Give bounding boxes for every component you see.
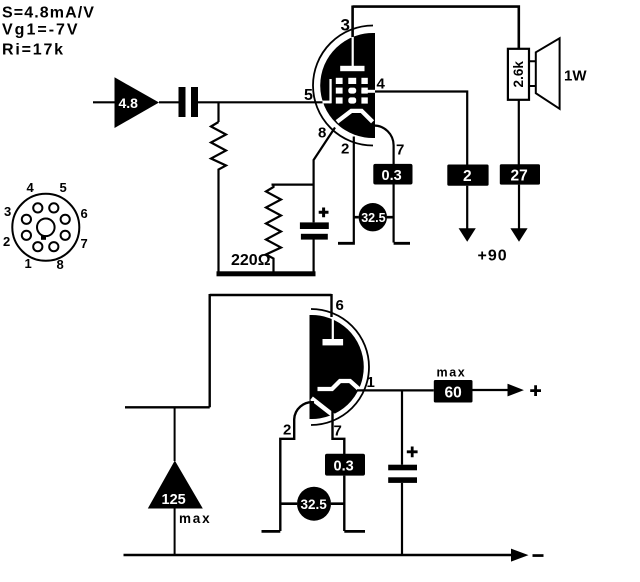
svg-text:220Ω: 220Ω [231, 252, 271, 269]
svg-text:+90: +90 [478, 248, 508, 265]
screen arrow wire [466, 186, 468, 230]
heater circle 32.5 bottom [280, 487, 344, 521]
tube V2 envelope [311, 309, 369, 425]
anode box 27 [500, 164, 540, 184]
svg-text:32.5: 32.5 [361, 211, 385, 225]
resistor grid leak [211, 122, 226, 272]
speaker horn [536, 38, 560, 109]
pin 2 hook lead [280, 402, 314, 531]
heater box 0.3 bottom [325, 454, 365, 476]
svg-text:6: 6 [336, 297, 344, 314]
tube V2 plate bar [323, 339, 344, 345]
tube V2 plate lead white [332, 317, 334, 340]
svg-text:0.3: 0.3 [334, 459, 354, 475]
output box 60 [434, 380, 473, 403]
wire 220 top [272, 184, 314, 186]
tube V1 pin 3 wire [351, 6, 354, 38]
svg-text:5: 5 [60, 180, 67, 195]
anode arrowhead [510, 228, 527, 242]
tube V2 gap cut white [312, 398, 337, 417]
svg-text:32.5: 32.5 [301, 497, 328, 512]
pin 7 foot [394, 242, 410, 245]
svg-text:27: 27 [511, 168, 528, 185]
output transformer 2.6k [508, 49, 529, 100]
svg-text:4: 4 [27, 180, 35, 195]
svg-text:1: 1 [25, 256, 32, 271]
svg-text:60: 60 [445, 385, 462, 402]
input wire [93, 101, 115, 103]
resistor 220 ohm [266, 185, 281, 272]
tube V1 grid row 3 [336, 97, 368, 103]
anode arrow wire [518, 185, 520, 230]
svg-text:Ri=17k: Ri=17k [2, 42, 65, 59]
svg-text:7: 7 [81, 236, 88, 251]
HT triangle 125 [148, 461, 203, 509]
filter capacitor C2 [388, 390, 417, 555]
parameter text block [2, 5, 95, 59]
svg-text:1W: 1W [564, 68, 587, 85]
svg-text:2: 2 [463, 168, 472, 185]
tube V1 grid left bus white [329, 79, 331, 103]
heater voltage circle 32.5 top [354, 203, 394, 231]
wire grid (pin 5 lead) [198, 101, 323, 103]
wire to 125 triangle [174, 407, 176, 461]
svg-text:max: max [179, 511, 211, 526]
tube V1 plate bar [340, 66, 364, 71]
svg-text:3: 3 [341, 16, 350, 35]
bypass capacitor C1 [300, 208, 329, 240]
tube V2 pin 6 wire [330, 294, 332, 317]
screen arrowhead [459, 228, 476, 242]
wire [159, 101, 179, 103]
tube socket base diagram [12, 194, 79, 261]
cathode output wire [357, 389, 508, 392]
pin 2 heater wire [353, 137, 355, 243]
tube V2 cathode chevron [318, 381, 360, 390]
screen box 2 [447, 165, 488, 186]
plus label output [530, 385, 541, 396]
svg-text:0.3: 0.3 [382, 168, 402, 184]
pin 7 wire bottom tube [333, 411, 345, 454]
tube V1 grid row 1 [336, 78, 368, 84]
wire below triangle [174, 508, 176, 555]
svg-text:2: 2 [3, 234, 10, 249]
svg-text:7: 7 [396, 142, 404, 159]
wire junction drop [217, 102, 219, 122]
svg-text:8: 8 [318, 125, 326, 142]
svg-text:2: 2 [283, 422, 291, 439]
pin 7 wire below box [343, 476, 345, 531]
svg-text:6: 6 [81, 206, 88, 221]
coupling capacitor [179, 87, 199, 117]
svg-text:4: 4 [377, 76, 386, 93]
tube V1 cathode chevron [337, 111, 373, 122]
bottom bus arrowhead [511, 549, 529, 562]
tube V1 envelope [313, 26, 373, 146]
pin 2 foot bottom [262, 530, 281, 533]
svg-text:Vg1=-7V: Vg1=-7V [2, 22, 80, 39]
wire below 2.6k [518, 100, 520, 165]
svg-text:3: 3 [4, 204, 11, 219]
cathode wire (pin 8 branch) [314, 128, 335, 273]
svg-text:1: 1 [367, 374, 375, 391]
tube V2 electrode block [310, 315, 364, 419]
output arrowhead [508, 384, 524, 397]
plate top wire [353, 7, 519, 49]
pin 7 wire below box [393, 185, 395, 243]
pin 2 foot [338, 242, 355, 245]
heater box 0.3 top [373, 164, 412, 185]
screen grid wire pin 4 [375, 92, 467, 165]
svg-text:S=4.8mA/V: S=4.8mA/V [2, 5, 95, 22]
speaker stubs [529, 61, 536, 86]
tube V1 plate lead white [352, 36, 354, 67]
bottom bus [124, 554, 513, 556]
cathode bus thick bar [217, 271, 316, 276]
svg-text:4.8: 4.8 [119, 95, 139, 111]
bottom circuit top wire [125, 294, 332, 407]
tube V1 electrode block [320, 33, 375, 138]
svg-text:2: 2 [341, 141, 349, 158]
svg-text:5: 5 [304, 87, 313, 104]
input source triangle 4.8 [115, 77, 160, 128]
svg-text:7: 7 [334, 423, 342, 440]
svg-text:125: 125 [162, 492, 186, 508]
tube V1 pin5 white lead [323, 101, 331, 104]
svg-text:8: 8 [57, 257, 64, 272]
svg-text:max: max [437, 366, 467, 380]
minus label [533, 554, 544, 557]
pin 7 foot bottom [344, 530, 365, 533]
socket pin numbers [3, 180, 88, 272]
svg-text:2.6k: 2.6k [511, 61, 526, 88]
pin 7 curved lead [374, 125, 394, 164]
tube V1 grid row 2 with pin4 lead [336, 88, 375, 94]
